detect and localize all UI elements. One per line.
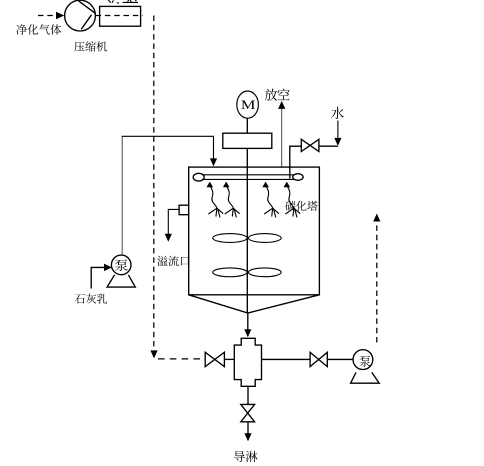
label 水 (water) bbox=[331, 107, 344, 119]
label 泵 in pump P2 bbox=[359, 356, 370, 367]
wire: cone outlet with down arrow bbox=[244, 313, 251, 337]
wire: drain with down arrow bbox=[244, 422, 251, 442]
wire: lime milk suction with arrow bbox=[91, 264, 112, 289]
svg-text:M: M bbox=[241, 99, 256, 113]
valve V-water bowtie bbox=[301, 139, 319, 151]
label 导淋 (drain) bbox=[234, 451, 258, 462]
wire: purified-gas dashed inlet arrow bbox=[38, 12, 64, 20]
valve V1 (gas inlet, bowtie) bbox=[205, 352, 224, 367]
wire: water down arrow bbox=[334, 121, 341, 146]
gearbox / flange rectangle bbox=[223, 133, 272, 148]
sparger left end ellipse bbox=[193, 173, 204, 181]
wire: pump discharge up and over to vessel bbox=[121, 137, 123, 256]
pump P2 circle bbox=[353, 350, 373, 370]
wire: dashed gas main down bbox=[150, 16, 157, 359]
valve V2 (bowtie) bbox=[310, 352, 327, 366]
pump P2 base trapezoid bbox=[351, 372, 380, 383]
gas bubbler squiggle 4 bbox=[284, 182, 301, 218]
label 泵 in pump P1 bbox=[115, 260, 128, 271]
label 石灰乳 (lime milk) bbox=[75, 294, 107, 304]
wire: dashed gas main to bottom valve bbox=[158, 358, 205, 360]
wire: valve V2 to pump P2 bbox=[327, 358, 353, 360]
drain valve V3 (vertical bowtie) bbox=[241, 404, 255, 421]
wire: block bottom to drain valve bbox=[247, 386, 249, 404]
wire: valve V1 to block bbox=[224, 358, 234, 360]
overflow nozzle on left wall bbox=[179, 205, 189, 215]
slurry pot / cross block bbox=[234, 338, 261, 386]
label 溢流口 (overflow port) bbox=[157, 256, 189, 266]
label 碳化塔 (carbonation tower) bbox=[285, 201, 317, 211]
pump P1 (lime milk) circle bbox=[111, 255, 131, 275]
compressor (压缩机) circle symbol bbox=[65, 0, 96, 31]
sparger pipe (double line) bbox=[202, 175, 294, 180]
label (clipped text remnants at top edge) bbox=[108, 0, 138, 3]
wire: block to valve V2 bbox=[262, 358, 311, 360]
wire: overflow line with down arrow bbox=[165, 209, 179, 241]
gas bubbler squiggle 1 bbox=[207, 182, 224, 218]
gas bubbler squiggle 2 bbox=[223, 182, 240, 218]
wire: water pipe to sparger bbox=[290, 146, 338, 178]
motor M1 ellipse bbox=[237, 91, 259, 118]
impeller upper left blade bbox=[213, 234, 247, 243]
agitator shaft bbox=[246, 148, 248, 312]
gas bubbler squiggle 3 bbox=[262, 182, 279, 218]
impeller upper right blade bbox=[248, 234, 281, 243]
sparger right end ellipse bbox=[293, 174, 303, 181]
arrow into vessel top bbox=[210, 158, 217, 166]
knockout drum / buffer vessel rectangle bbox=[100, 6, 141, 26]
impeller lower left blade bbox=[213, 268, 247, 277]
vessel conical bottom bbox=[189, 295, 320, 313]
wire: motor stem bbox=[246, 118, 248, 133]
vessel shell rectangle bbox=[189, 167, 320, 295]
label 压缩机 (compressor) bbox=[74, 41, 107, 51]
pump P1 base trapezoid bbox=[107, 275, 135, 287]
label 放空 (vent) bbox=[265, 88, 290, 100]
wire: dashed gas line through drum bbox=[96, 15, 143, 17]
wire: dashed recycle line with up arrow bbox=[373, 214, 380, 343]
label 净化气体 (purified gas) bbox=[16, 24, 61, 34]
wire: vent line with up arrow bbox=[278, 101, 285, 167]
impeller lower right blade bbox=[248, 268, 281, 277]
